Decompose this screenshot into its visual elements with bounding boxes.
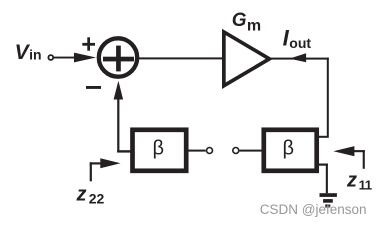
svg-text:m: m [247, 17, 261, 34]
svg-text:β: β [153, 138, 165, 160]
svg-text:11: 11 [359, 177, 372, 192]
svg-text:β: β [283, 138, 295, 160]
svg-text:out: out [289, 35, 311, 51]
svg-text:22: 22 [89, 191, 105, 207]
svg-text:in: in [29, 47, 41, 63]
svg-text:CSDN @jefenson: CSDN @jefenson [260, 202, 367, 217]
svg-text:G: G [232, 10, 247, 31]
svg-text:z: z [76, 183, 87, 205]
svg-text:z: z [346, 169, 357, 191]
